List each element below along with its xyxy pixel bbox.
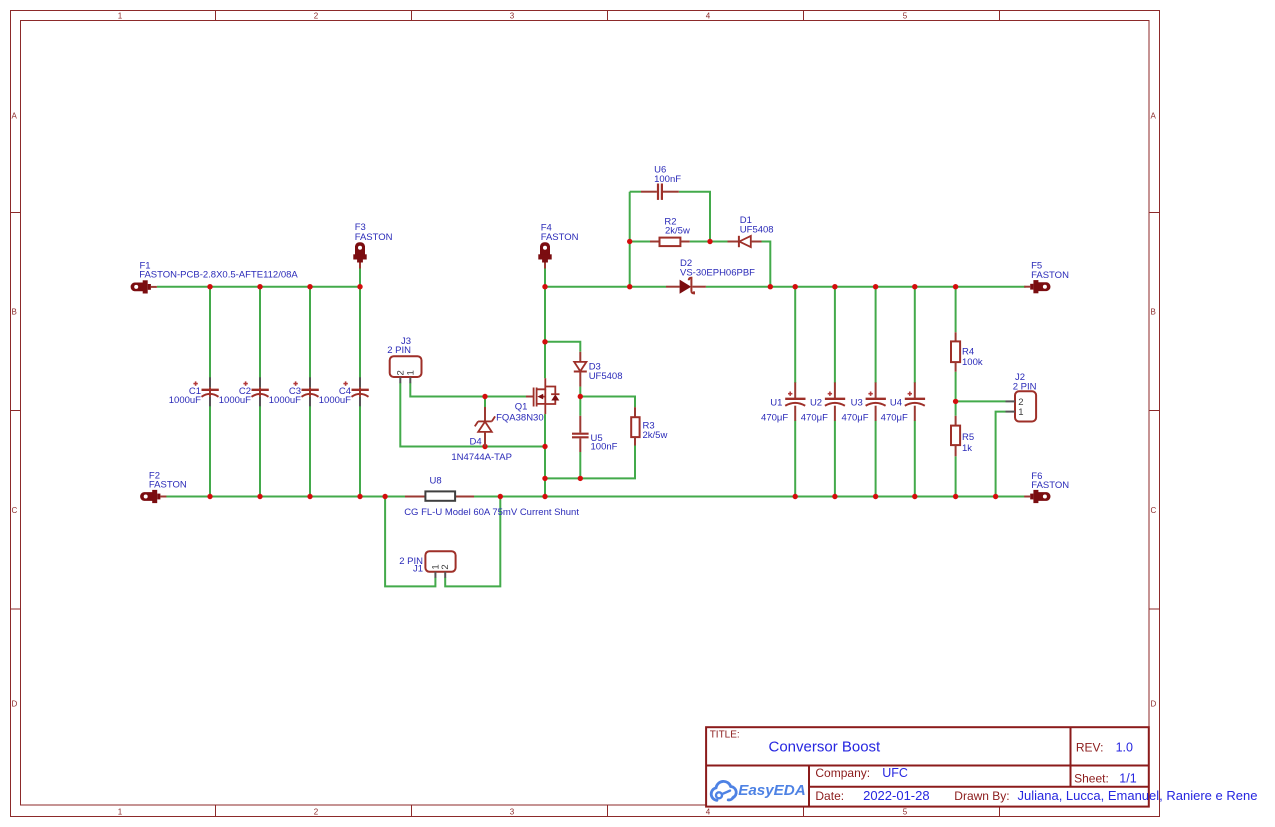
svg-text:D: D bbox=[1151, 700, 1157, 709]
svg-text:U1: U1 bbox=[770, 397, 782, 408]
wire F3 drop to top bus bbox=[359, 266, 361, 286]
wire J1 kelvin loop left branch bbox=[385, 497, 435, 587]
wire node to J2 pin2 bbox=[956, 400, 1006, 402]
svg-text:EasyEDA: EasyEDA bbox=[738, 782, 806, 799]
title block row divider 2 bbox=[809, 786, 1149, 788]
junction dot source / anode rail bbox=[542, 444, 547, 449]
junction dot gate line / D4 bbox=[482, 394, 487, 399]
svg-text:100nF: 100nF bbox=[591, 442, 618, 453]
EasyEDA logo cloud icon bbox=[711, 781, 736, 800]
svg-text:2022-01-28: 2022-01-28 bbox=[863, 788, 930, 803]
wire C1 column upper segment bbox=[209, 286, 211, 388]
svg-text:FASTON: FASTON bbox=[541, 232, 579, 243]
wire C4 column upper segment bbox=[359, 286, 361, 388]
svg-text:2: 2 bbox=[440, 564, 451, 569]
svg-text:U4: U4 bbox=[890, 397, 902, 408]
svg-text:100k: 100k bbox=[962, 357, 983, 368]
capacitor C1 symbol bbox=[209, 377, 211, 387]
capacitor U6 100nF symbol bbox=[641, 191, 657, 193]
wire node to R3 top bbox=[579, 397, 635, 408]
wire U4 column upper segment bbox=[914, 286, 916, 383]
wire D3 cathode to node bbox=[579, 387, 581, 397]
svg-text:1000uF: 1000uF bbox=[319, 395, 351, 406]
svg-text:J1: J1 bbox=[413, 563, 423, 574]
svg-text:REV:: REV: bbox=[1076, 741, 1104, 755]
svg-text:UF5408: UF5408 bbox=[740, 225, 774, 236]
wire C1 column lower segment bbox=[209, 397, 211, 498]
svg-text:1.0: 1.0 bbox=[1116, 741, 1133, 755]
wire D4 cathode stub to gate line bbox=[484, 397, 486, 408]
junction dot R4/R5 divider node bbox=[953, 399, 958, 404]
capacitor C3 symbol bbox=[309, 377, 311, 387]
svg-text:470μF: 470μF bbox=[841, 412, 868, 423]
connector F2 FASTON symbol bbox=[140, 492, 153, 501]
svg-text:1/1: 1/1 bbox=[1119, 771, 1136, 785]
diode D3 UF5408 symbol bbox=[579, 352, 581, 362]
wire bottom bus left of U8 bbox=[165, 496, 405, 498]
diode D1 UF5408 symbol bbox=[728, 241, 739, 243]
svg-text:3: 3 bbox=[510, 808, 515, 817]
svg-text:C: C bbox=[12, 506, 18, 515]
connector J1 2-pin header body bbox=[425, 551, 455, 572]
resistor R2 2k/5w symbol bbox=[650, 241, 660, 243]
svg-text:FASTON: FASTON bbox=[355, 232, 393, 243]
junction dot U5 bottom bbox=[578, 476, 583, 481]
wire R4 top stub bbox=[955, 286, 957, 333]
junction dot R2/U6 right bbox=[707, 239, 712, 244]
svg-text:2k/5w: 2k/5w bbox=[643, 430, 668, 441]
capacitor U2 symbol bbox=[834, 382, 836, 398]
svg-text:CG FL-U Model 60A 75mV Current: CG FL-U Model 60A 75mV Current Shunt bbox=[404, 507, 579, 518]
wire U6 top loop left bbox=[630, 191, 641, 193]
svg-text:FASTON: FASTON bbox=[149, 480, 187, 491]
wire R2 line left bbox=[629, 241, 650, 243]
svg-text:4: 4 bbox=[706, 808, 711, 817]
wire U5 bottom stub bbox=[579, 452, 581, 479]
wire U1 column upper segment bbox=[794, 286, 796, 383]
junction dot D3/U5/R3 node bbox=[578, 394, 583, 399]
wire J3 pin1 to Q1 gate line bbox=[410, 383, 526, 397]
connector F4 FASTON symbol bbox=[540, 242, 550, 255]
wire top bus D2 to F5 bbox=[706, 286, 1026, 288]
svg-text:Sheet:: Sheet: bbox=[1074, 771, 1109, 785]
junction dot R2 line left bbox=[627, 239, 632, 244]
column ticks bottom band bbox=[215, 805, 217, 817]
capacitor U1 plus sign bbox=[788, 393, 792, 395]
svg-text:FASTON-PCB-2.8X0.5-AFTE112/08A: FASTON-PCB-2.8X0.5-AFTE112/08A bbox=[139, 270, 298, 281]
wire R2 to D1 segment bbox=[690, 241, 728, 243]
J1 pin 1 stub bbox=[434, 572, 436, 578]
capacitor U3 symbol bbox=[875, 382, 877, 398]
svg-text:2: 2 bbox=[314, 12, 319, 21]
svg-text:D4: D4 bbox=[470, 436, 482, 447]
wire U1 column lower segment bbox=[794, 421, 796, 498]
capacitor C2 plus sign bbox=[243, 383, 247, 385]
resistor R5 1k symbol bbox=[955, 416, 957, 426]
svg-text:1: 1 bbox=[405, 370, 416, 375]
wire F4 drop to top bus bbox=[544, 266, 546, 286]
capacitor C1 plus sign bbox=[193, 383, 197, 385]
svg-text:A: A bbox=[12, 111, 18, 120]
svg-text:UFC: UFC bbox=[882, 766, 908, 780]
J1 pin 2 stub bbox=[444, 572, 446, 578]
J3 pin 1 stub bbox=[409, 377, 411, 383]
svg-text:Conversor Boost: Conversor Boost bbox=[769, 739, 882, 756]
connector F5 FASTON symbol bbox=[1038, 282, 1051, 291]
svg-text:Company:: Company: bbox=[815, 766, 870, 780]
svg-text:UF5408: UF5408 bbox=[589, 371, 623, 382]
wire J1 kelvin loop right branch bbox=[445, 497, 500, 587]
wire R3 bottom to source column bbox=[544, 446, 635, 479]
capacitor U5 100nF symbol bbox=[579, 416, 581, 433]
connector F6 FASTON symbol bbox=[1038, 492, 1051, 501]
svg-text:470μF: 470μF bbox=[761, 412, 788, 423]
svg-text:D: D bbox=[12, 700, 18, 709]
wire R4-R5 node bbox=[955, 372, 957, 416]
svg-text:R5: R5 bbox=[962, 432, 974, 443]
wire U3 column upper segment bbox=[875, 286, 877, 383]
wire Q1 source column down to bottom bus bbox=[544, 414, 546, 497]
title block outline bbox=[706, 727, 1149, 806]
capacitor C2 symbol bbox=[259, 377, 261, 387]
svg-text:R4: R4 bbox=[962, 347, 974, 358]
junction dots bottom bus bbox=[207, 494, 212, 499]
wire U2 column upper segment bbox=[834, 286, 836, 383]
connector F3 FASTON symbol bbox=[355, 242, 365, 255]
svg-text:2 PIN: 2 PIN bbox=[387, 345, 411, 356]
svg-text:2: 2 bbox=[314, 808, 319, 817]
wire U3 column lower segment bbox=[875, 421, 877, 498]
svg-text:100nF: 100nF bbox=[654, 174, 681, 185]
wire top-left bus from F1 to F3/C4 column bbox=[157, 286, 360, 288]
wire top bus F4 to D2 bbox=[545, 286, 666, 288]
wire D1 to bus corner bbox=[762, 242, 771, 286]
wire C3 column upper segment bbox=[309, 286, 311, 388]
svg-text:Drawn By:: Drawn By: bbox=[954, 789, 1009, 803]
svg-text:A: A bbox=[1151, 111, 1157, 120]
wire J2 pin1 to bottom bus bbox=[996, 412, 1006, 498]
resistor R3 2k/5w symbol bbox=[634, 407, 636, 417]
capacitor U4 symbol bbox=[914, 382, 916, 398]
row ticks left band bbox=[11, 212, 21, 214]
J3 pin 2 stub bbox=[399, 377, 401, 383]
capacitor C4 symbol bbox=[359, 377, 361, 387]
zener diode D4 1N4744A symbol bbox=[484, 407, 486, 421]
transistor Q1 FQA38N30 N-MOSFET bbox=[526, 396, 533, 398]
svg-text:U8: U8 bbox=[430, 476, 442, 487]
capacitor U2 plus sign bbox=[828, 393, 832, 395]
svg-text:1N4744A-TAP: 1N4744A-TAP bbox=[451, 452, 512, 463]
svg-text:1: 1 bbox=[118, 12, 123, 21]
title block row divider 1 bbox=[706, 765, 1149, 767]
wire U5 top stub bbox=[579, 397, 581, 416]
row ticks right band bbox=[1149, 212, 1160, 214]
svg-text:470μF: 470μF bbox=[881, 412, 908, 423]
wire Q1 drain column bbox=[544, 286, 546, 379]
capacitor C4 plus sign bbox=[343, 383, 347, 385]
wire R5 bottom stub bbox=[955, 456, 957, 497]
title block logo cell divider bbox=[808, 766, 810, 807]
title block REV column divider bbox=[1070, 727, 1072, 787]
capacitor U1 symbol bbox=[794, 382, 796, 398]
wire C3 column lower segment bbox=[309, 397, 311, 498]
svg-text:1: 1 bbox=[1018, 407, 1023, 418]
wire C4 column lower segment bbox=[359, 397, 361, 498]
svg-text:U2: U2 bbox=[810, 397, 822, 408]
svg-text:5: 5 bbox=[903, 808, 908, 817]
svg-text:1k: 1k bbox=[962, 443, 972, 454]
svg-text:U3: U3 bbox=[851, 397, 863, 408]
J2 pin 1 stub bbox=[1006, 411, 1016, 413]
svg-text:FASTON: FASTON bbox=[1031, 270, 1069, 281]
wire U4 column lower segment bbox=[914, 421, 916, 498]
connector J2 2-pin header body bbox=[1015, 391, 1036, 421]
connector F1 FASTON-PCB symbol bbox=[131, 283, 144, 292]
connector J3 2-pin header body bbox=[390, 356, 422, 377]
svg-text:3: 3 bbox=[510, 12, 515, 21]
diode D2 VS-30EPH06PBF symbol bbox=[666, 286, 680, 288]
wire C2 column lower segment bbox=[259, 397, 261, 498]
junction dot Q1 drain / D3 node bbox=[542, 339, 547, 344]
svg-text:Juliana, Lucca, Emanuel, Ranie: Juliana, Lucca, Emanuel, Raniere e Rene bbox=[1018, 788, 1258, 803]
wire U2 column lower segment bbox=[834, 421, 836, 498]
capacitor C3 plus sign bbox=[293, 383, 297, 385]
svg-text:1000uF: 1000uF bbox=[219, 395, 251, 406]
wire bottom bus right of U8 bbox=[474, 496, 1026, 498]
column ticks top band bbox=[215, 11, 217, 21]
svg-text:5: 5 bbox=[903, 12, 908, 21]
svg-text:TITLE:: TITLE: bbox=[710, 729, 740, 740]
svg-text:B: B bbox=[1151, 307, 1156, 316]
junction dot D4 anode rail bbox=[482, 444, 487, 449]
shunt U8 body bbox=[405, 496, 425, 498]
J2 pin 2 stub bbox=[1006, 400, 1016, 402]
svg-text:VS-30EPH06PBF: VS-30EPH06PBF bbox=[680, 267, 755, 278]
capacitor U3 plus sign bbox=[868, 393, 872, 395]
wire U6 top loop right bbox=[679, 192, 710, 241]
svg-text:FASTON: FASTON bbox=[1031, 480, 1069, 491]
svg-text:Date:: Date: bbox=[815, 789, 844, 803]
svg-text:1: 1 bbox=[118, 808, 123, 817]
svg-text:FQA38N30: FQA38N30 bbox=[496, 412, 544, 423]
svg-text:Q1: Q1 bbox=[515, 402, 528, 413]
svg-text:4: 4 bbox=[706, 12, 711, 21]
svg-text:1000uF: 1000uF bbox=[269, 395, 301, 406]
junction dots top-right bus bbox=[542, 284, 547, 289]
wire C2 column upper segment bbox=[259, 286, 261, 388]
svg-text:1000uF: 1000uF bbox=[169, 395, 201, 406]
svg-text:C: C bbox=[1151, 506, 1157, 515]
wire node to D3 top bbox=[545, 342, 580, 352]
wire J3 pin2 to D4 anode rail bbox=[400, 383, 545, 447]
svg-text:2k/5w: 2k/5w bbox=[665, 225, 690, 236]
junction dot source / snubber bottom bbox=[542, 476, 547, 481]
wire U6/R2 left column bbox=[629, 192, 631, 287]
junction dots top-left bus bbox=[207, 284, 212, 289]
capacitor U4 plus sign bbox=[908, 393, 912, 395]
svg-text:470μF: 470μF bbox=[801, 412, 828, 423]
svg-text:2 PIN: 2 PIN bbox=[1013, 382, 1037, 393]
resistor R4 100k symbol bbox=[955, 332, 957, 341]
svg-text:B: B bbox=[12, 307, 17, 316]
